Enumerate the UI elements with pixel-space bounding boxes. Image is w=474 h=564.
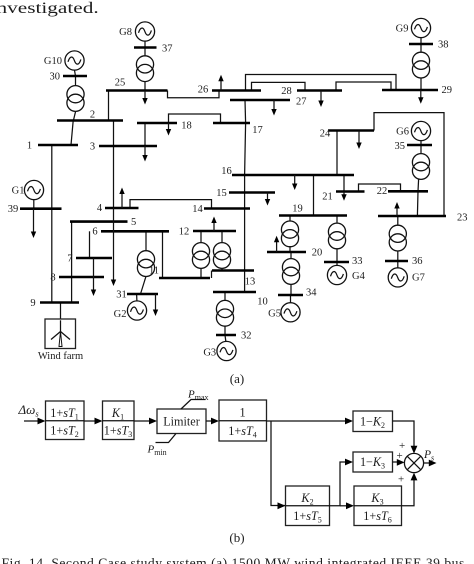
load arrow bus 26 (up) bbox=[218, 75, 223, 91]
svg-text:(b): (b) bbox=[229, 530, 244, 545]
wire G9 to bus 38 to transformer bbox=[420, 38, 422, 52]
bus 18 bbox=[137, 121, 192, 132]
wire bus 23 to transformer 23-36 bbox=[397, 216, 399, 225]
wind farm bbox=[38, 319, 83, 362]
svg-text:31: 31 bbox=[116, 289, 127, 300]
wire bus 32 to G3 bbox=[224, 335, 227, 341]
svg-text:Fig. 14. Second Case study sys: Fig. 14. Second Case study system (a) 15… bbox=[2, 556, 465, 564]
svg-text:+: + bbox=[398, 474, 404, 486]
svg-text:10: 10 bbox=[257, 296, 268, 307]
svg-text:G1: G1 bbox=[12, 185, 25, 196]
arrow block1 to block2 bbox=[84, 418, 103, 425]
wire line 16-15-14-13-10 bbox=[244, 175, 246, 292]
svg-text:4: 4 bbox=[97, 203, 103, 214]
wire line 16-17 bbox=[245, 123, 246, 175]
bus 34 bbox=[278, 288, 317, 299]
bus 19 bbox=[279, 203, 347, 215]
summing junction circle with X bbox=[404, 453, 423, 472]
transformer bus37-bus25 bbox=[136, 56, 153, 82]
wire line 1-2 bbox=[71, 121, 73, 146]
transformer bus19-bus33 bbox=[328, 223, 345, 249]
wire transformer to bus 31 bbox=[141, 276, 147, 294]
svg-text:38: 38 bbox=[438, 40, 449, 51]
load arrow bus 29 bbox=[418, 90, 423, 104]
bus 39 bbox=[8, 204, 62, 215]
transformer bus6-bus31 bbox=[137, 251, 154, 277]
load arrow bus 28 bbox=[318, 91, 323, 108]
generator G10 bbox=[44, 51, 84, 70]
svg-text:22: 22 bbox=[377, 186, 388, 197]
wire line 3-18 bbox=[144, 123, 146, 146]
transformer bus23-bus36 bbox=[389, 225, 406, 251]
svg-text:18: 18 bbox=[181, 121, 192, 132]
block (1+sT1)/(1+sT2) bbox=[46, 401, 85, 440]
svg-text:(a): (a) bbox=[230, 371, 244, 386]
bus 8 bbox=[50, 272, 104, 283]
wire line 22-23 bbox=[416, 191, 419, 216]
svg-text:9: 9 bbox=[30, 298, 35, 309]
bus 6 bbox=[92, 227, 169, 238]
wire line 6-11 bbox=[162, 231, 164, 278]
svg-text:14: 14 bbox=[192, 204, 203, 215]
wire bus 10 to transformer bbox=[224, 292, 226, 300]
svg-text:36: 36 bbox=[412, 256, 423, 267]
block K1/(1+sT3) bbox=[103, 401, 135, 440]
transformer bus30-bus2 bbox=[67, 86, 84, 112]
svg-text:1: 1 bbox=[239, 406, 245, 420]
load arrow bus 12 (up) bbox=[211, 217, 216, 232]
bus 30 bbox=[50, 71, 88, 82]
load arrow bus 7-8 bbox=[91, 258, 96, 296]
svg-text:23: 23 bbox=[457, 212, 468, 223]
wire bus 13 to bus 11 bbox=[211, 271, 213, 279]
wire right transformer to bus 13 bbox=[221, 268, 223, 270]
wire bus 6 to transformer bbox=[145, 231, 147, 250]
bus 9 bbox=[30, 298, 79, 309]
wire transformer to bus 29 bbox=[420, 78, 422, 90]
wire bus 19 to transformer 19-20 bbox=[289, 217, 291, 221]
bus 28 bbox=[281, 86, 342, 97]
svg-text:8: 8 bbox=[50, 272, 55, 283]
arrow block2 to limiter bbox=[134, 418, 157, 425]
svg-text:15: 15 bbox=[216, 188, 227, 199]
load arrow bus 21 bbox=[341, 192, 346, 201]
wire K2 output up to 1-K3 bbox=[330, 462, 346, 506]
limiter P_min label and lead line bbox=[147, 434, 177, 458]
transformer bus10-bus32 bbox=[216, 300, 233, 326]
load arrow bus 31 bbox=[153, 294, 158, 316]
bus 4 bbox=[97, 203, 139, 214]
bus 31 bbox=[116, 289, 158, 300]
svg-text:Limiter: Limiter bbox=[163, 415, 200, 429]
wire G8 to bus 37 to transformer bbox=[144, 41, 146, 55]
bus 27 bbox=[230, 97, 307, 108]
wire transformer to bus 25 bbox=[144, 82, 146, 91]
wire line 1-39-9 bbox=[51, 145, 53, 303]
wire branch down to K2 block bbox=[271, 421, 285, 506]
bus 2 bbox=[57, 109, 123, 120]
svg-text:G3: G3 bbox=[203, 348, 216, 359]
wire line 16-19 bbox=[313, 175, 315, 216]
svg-text:1+sT1: 1+sT1 bbox=[50, 406, 79, 422]
wire G10 to bus 30 to transformer bbox=[75, 70, 76, 85]
bus 29 bbox=[382, 85, 452, 96]
svg-text:6: 6 bbox=[92, 227, 97, 238]
block 1/(1+sT4) bbox=[219, 400, 267, 441]
generator G3 bbox=[203, 341, 236, 360]
svg-text:30: 30 bbox=[50, 71, 61, 82]
bus 37 bbox=[134, 43, 173, 54]
wire bus 36 to G7 bbox=[397, 261, 399, 268]
svg-text:1: 1 bbox=[27, 141, 32, 152]
wire line 21-22 bbox=[359, 184, 401, 192]
block K3/(1+sT6) bbox=[354, 486, 402, 526]
load arrow bus 25 bbox=[142, 91, 147, 105]
svg-text:G8: G8 bbox=[119, 27, 132, 38]
arrowhead into summer from top bbox=[411, 446, 418, 454]
wire bus 33 to G4 bbox=[336, 262, 338, 265]
wire transformer to bus 2 bbox=[73, 112, 75, 121]
wire line 23-24 bbox=[374, 113, 444, 216]
wire line 25-26 bbox=[168, 91, 220, 98]
svg-text:G10: G10 bbox=[44, 56, 62, 67]
load arrow bus 4 (up) bbox=[119, 188, 124, 209]
wire line 16-24 bbox=[336, 131, 338, 176]
generator G5 bbox=[268, 303, 300, 322]
load arrow bus 18 bbox=[166, 123, 171, 136]
bus 22 bbox=[377, 186, 428, 197]
svg-text:G4: G4 bbox=[352, 271, 366, 282]
svg-text:12: 12 bbox=[179, 226, 190, 237]
svg-text:nvestigated.: nvestigated. bbox=[0, 0, 99, 17]
svg-text:G7: G7 bbox=[412, 272, 425, 283]
transformer bus35-bus22 bbox=[412, 154, 429, 180]
bus 25 bbox=[106, 77, 168, 90]
svg-text:17: 17 bbox=[252, 125, 263, 136]
load arrow bus 23 (up) bbox=[394, 202, 399, 216]
generator G9 bbox=[396, 18, 431, 37]
svg-text:32: 32 bbox=[241, 330, 252, 341]
transformer bus19-bus20 bbox=[281, 221, 298, 247]
generator G6 bbox=[396, 121, 430, 140]
wire line 16-21 bbox=[343, 175, 345, 192]
wire G1 to bus 39 bbox=[33, 200, 35, 209]
svg-text:27: 27 bbox=[296, 97, 307, 108]
svg-text:5: 5 bbox=[131, 217, 136, 228]
arrow limiter to block 1/(1+sT4) bbox=[206, 418, 219, 425]
arrowhead into summer from bottom bbox=[411, 473, 418, 481]
svg-text:19: 19 bbox=[292, 203, 303, 214]
svg-text:24: 24 bbox=[320, 128, 331, 139]
wire left transformer to bus 11 bbox=[200, 268, 202, 278]
bus 7 bbox=[67, 253, 112, 264]
wire line 17-27 bbox=[244, 100, 247, 123]
load arrow line 4-5-6 down bbox=[111, 208, 116, 286]
block K2/(1+sT5) bbox=[286, 486, 330, 526]
svg-text:1+sT3: 1+sT3 bbox=[104, 424, 133, 440]
wire bus 20 to transformer 20-34 bbox=[290, 252, 292, 258]
bus 38 bbox=[409, 40, 449, 51]
bus 3 bbox=[90, 142, 157, 153]
svg-text:20: 20 bbox=[312, 248, 323, 259]
bus 13 bbox=[212, 271, 255, 288]
wire bus 19 to transformer 19-33 bbox=[336, 217, 338, 223]
bus 12 bbox=[179, 226, 236, 237]
bus 15 bbox=[216, 188, 275, 199]
transformer bus12-bus11 bbox=[192, 243, 209, 269]
arrowhead into summer from left (from 1-K3) bbox=[393, 459, 405, 466]
transformer bus20-bus34 bbox=[282, 259, 299, 285]
wire 1-K2 output to summer top bbox=[393, 421, 415, 446]
svg-text:16: 16 bbox=[221, 166, 232, 177]
svg-text:G5: G5 bbox=[268, 309, 281, 320]
wire bus 12 to right transformer bbox=[221, 231, 223, 242]
bus 11 bbox=[149, 266, 210, 279]
bus 10 bbox=[213, 292, 268, 307]
wire line 28-29 bbox=[336, 82, 391, 91]
wire line 4-14 bbox=[130, 200, 212, 209]
bus 32 bbox=[216, 330, 252, 341]
wire transformer to bus 34 bbox=[290, 284, 292, 295]
svg-text:2: 2 bbox=[90, 109, 95, 120]
svg-text:28: 28 bbox=[281, 86, 292, 97]
bus 23 bbox=[378, 212, 468, 223]
svg-text:33: 33 bbox=[352, 256, 363, 267]
bus 36 bbox=[385, 256, 423, 267]
wire bus 31 to G2 bbox=[136, 294, 138, 301]
limiter P_max label and lead line bbox=[181, 389, 209, 410]
svg-text:1+sT5: 1+sT5 bbox=[293, 509, 322, 525]
svg-text:1+sT6: 1+sT6 bbox=[363, 509, 392, 525]
svg-text:26: 26 bbox=[198, 84, 209, 95]
bus 20 bbox=[267, 248, 322, 259]
wire G6 to bus 35 to transformer bbox=[420, 141, 422, 154]
svg-text:13: 13 bbox=[245, 277, 256, 288]
bus 35 bbox=[395, 141, 433, 152]
bus 33 bbox=[324, 256, 363, 267]
transformer bus38-bus29 bbox=[412, 52, 429, 78]
wire K2 output to K3 block bbox=[340, 505, 347, 507]
load arrow bus 3 bbox=[142, 146, 147, 162]
generator G2 bbox=[114, 301, 147, 320]
arrowhead into K2 block bbox=[278, 502, 286, 509]
generator G8 bbox=[119, 22, 154, 41]
generator G4 bbox=[327, 265, 365, 284]
bus 14 bbox=[192, 204, 250, 215]
input arrow to block T1/T2 bbox=[24, 418, 46, 425]
block 1-K2 bbox=[353, 411, 393, 432]
svg-text:Wind farm: Wind farm bbox=[38, 351, 83, 362]
svg-text:3: 3 bbox=[90, 142, 95, 153]
svg-text:29: 29 bbox=[442, 85, 453, 96]
svg-text:G6: G6 bbox=[396, 126, 409, 137]
wire bus 12 to left transformer bbox=[200, 231, 202, 242]
generator G1 bbox=[12, 180, 44, 199]
wire block4 output to 1-K2 bbox=[267, 418, 354, 425]
svg-text:34: 34 bbox=[306, 288, 317, 299]
svg-text:1+sT4: 1+sT4 bbox=[228, 424, 257, 440]
svg-text:G9: G9 bbox=[396, 23, 409, 34]
bus 1 bbox=[27, 141, 78, 152]
wire transformer to bus 36 bbox=[397, 251, 399, 261]
wire bus 9 to wind farm bbox=[60, 303, 62, 320]
svg-text:39: 39 bbox=[8, 204, 19, 215]
wire K3 output to summer bottom bbox=[402, 480, 415, 506]
output arrow P_s bbox=[423, 449, 437, 466]
wire bus 34 to G5 bbox=[290, 295, 292, 303]
svg-text:21: 21 bbox=[322, 192, 333, 203]
load arrow bus 24 bbox=[356, 131, 361, 150]
load arrow bus 15 bbox=[265, 193, 270, 206]
transformer bus12-bus13 bbox=[213, 243, 230, 269]
wire line 26-28 bbox=[252, 82, 306, 90]
load arrow bus 16 bbox=[292, 175, 297, 190]
block Limiter bbox=[157, 409, 206, 434]
paragraph fragment "investigated." bbox=[0, 0, 99, 17]
generator G7 bbox=[388, 268, 425, 287]
wire transformer to bus 32 bbox=[224, 326, 226, 335]
bus 26 bbox=[198, 84, 261, 95]
load arrow bus 27 bbox=[271, 100, 276, 116]
wire line 5-8-9 bbox=[71, 222, 73, 303]
svg-text:+: + bbox=[397, 450, 403, 462]
bus 17 bbox=[213, 123, 263, 136]
wire transformer to bus 33 bbox=[336, 248, 338, 262]
bus 21 bbox=[322, 192, 364, 203]
wire line 6-7 bbox=[89, 231, 91, 258]
wire line 17-18 bbox=[169, 114, 221, 123]
svg-text:35: 35 bbox=[395, 141, 406, 152]
load arrow bus 20 (up) bbox=[274, 236, 279, 252]
arrowhead into 1-K3 block bbox=[345, 459, 353, 466]
wire transformer to bus 22 bbox=[417, 179, 420, 191]
wire transformer to bus 20 bbox=[289, 246, 291, 252]
arrowhead into K3 block bbox=[346, 502, 354, 509]
svg-text:G2: G2 bbox=[114, 309, 127, 320]
load arrow bus 39 bbox=[31, 209, 36, 238]
svg-text:7: 7 bbox=[67, 253, 72, 264]
bus 16 bbox=[221, 166, 354, 177]
bus 5 bbox=[70, 217, 136, 228]
svg-text:37: 37 bbox=[162, 43, 173, 54]
wire line 26-29 bbox=[246, 75, 397, 91]
wire line 2-3-4 bbox=[113, 121, 115, 209]
bus 24 bbox=[320, 128, 374, 139]
svg-text:1+sT2: 1+sT2 bbox=[50, 424, 79, 440]
svg-text:25: 25 bbox=[115, 77, 126, 88]
block 1-K3 bbox=[353, 452, 393, 472]
wire line 2-25 bbox=[108, 91, 110, 121]
